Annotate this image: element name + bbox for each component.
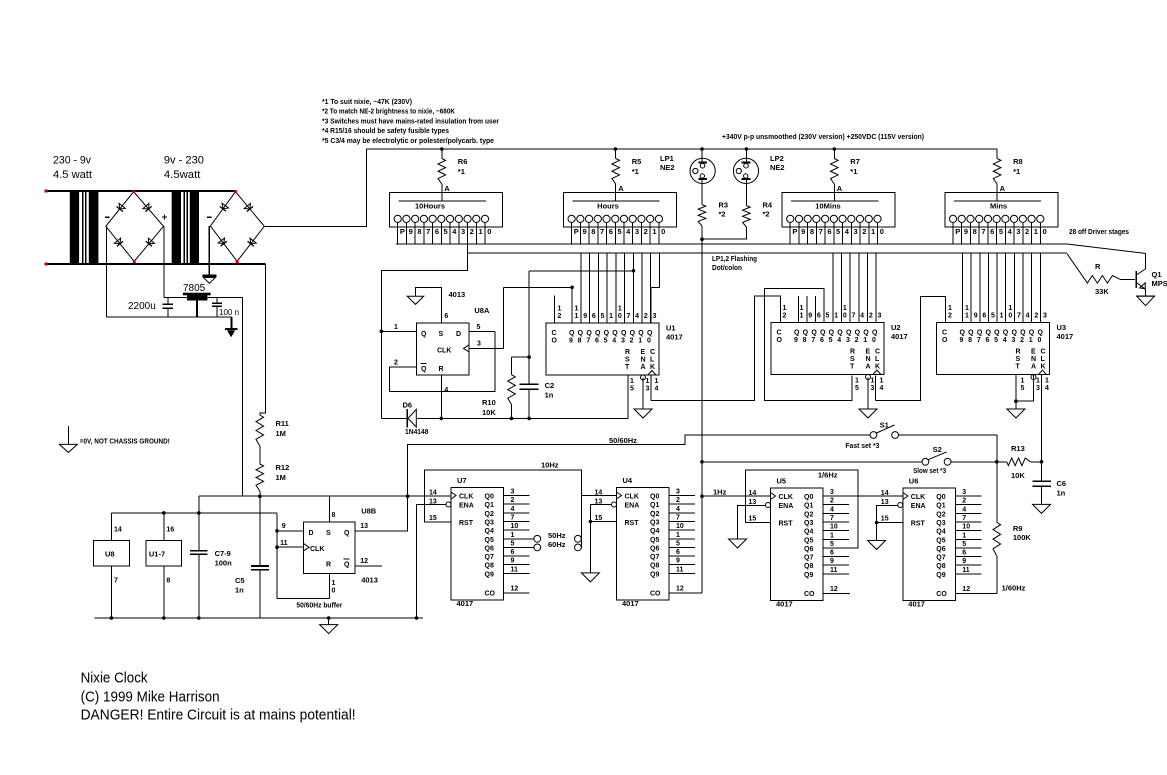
wire BR2 plus to anode bus [264,149,366,226]
svg-text:Q: Q [595,330,601,337]
svg-text:Q: Q [612,330,618,337]
svg-text:9: 9 [583,227,587,236]
resistor R5 anode [615,149,617,159]
svg-text:CLK: CLK [911,494,925,501]
junction U3 RST ENA [1014,399,1018,403]
svg-text:1n: 1n [545,391,554,400]
wire U2 unused pin stubs [798,296,800,322]
svg-text:4: 4 [845,227,850,236]
svg-text:9: 9 [808,313,812,320]
nixie Mins cathode pin wires [952,223,954,245]
wire U8A pin1 Q [381,330,416,332]
wire U7 RST loop 10Hz [425,470,582,548]
svg-text:8: 8 [968,337,972,344]
svg-text:2: 2 [511,497,515,504]
svg-text:12: 12 [830,586,838,593]
svg-text:8: 8 [810,227,814,236]
svg-text:Q8: Q8 [804,563,813,570]
wire U1-7 pin16 [163,513,165,541]
svg-text:N: N [1031,356,1036,363]
svg-text:28 off Driver stages: 28 off Driver stages [1069,229,1129,236]
wire S1 to R13 node [899,435,997,462]
svg-text:Q4: Q4 [804,529,813,536]
svg-text:1/6Hz: 1/6Hz [818,471,838,480]
svg-text:7: 7 [811,337,815,344]
svg-text:4017: 4017 [457,599,474,608]
svg-text:U4: U4 [623,476,633,485]
jumper 60Hz circles [534,544,541,551]
svg-text:9: 9 [960,337,964,344]
svg-text:MPSA4: MPSA4 [1152,279,1167,288]
IC U5 CLK wedge [771,493,776,500]
IC U7 output stubs [504,495,530,497]
svg-text:1: 1 [558,306,562,313]
svg-text:1M: 1M [276,473,286,482]
wire 10Hours anode entry [441,192,443,201]
wire U6 CO to R9 [955,592,997,594]
resistor R13 [1007,458,1031,466]
svg-text:L: L [1041,356,1046,363]
transformer T1 core [82,191,84,264]
svg-text:R7: R7 [850,157,860,166]
svg-text:1: 1 [1034,227,1038,236]
svg-text:1: 1 [863,337,867,344]
svg-text:Q: Q [846,330,852,337]
wire U8B pin11 CLK [277,546,304,548]
junction anode bus LP2 [745,147,749,151]
svg-text:Q: Q [621,330,627,337]
svg-text:*2: *2 [763,210,770,219]
svg-text:A: A [1000,184,1006,193]
svg-text:ENA: ENA [459,503,474,510]
ground U6 [868,541,886,550]
svg-text:50/60Hz: 50/60Hz [609,436,637,445]
svg-text:3: 3 [511,489,515,496]
svg-text:2: 2 [1020,337,1024,344]
svg-text:1: 1 [783,305,787,312]
wire mains top rail [46,190,236,192]
ground U1 ENA [634,409,652,418]
svg-text:RST: RST [779,521,794,528]
wire U8A pin5 D [469,331,495,333]
IC U6 4017 box [903,488,956,601]
svg-text:CLK: CLK [310,546,324,553]
junction U8B CLK [275,545,279,549]
junction gnd U1-7 [162,616,166,620]
svg-text:Q0: Q0 [936,494,945,501]
svg-text:12: 12 [676,586,684,593]
wire Hours cathode drops to U1 [580,253,582,323]
wire U5 RST loop [746,470,859,548]
svg-text:6: 6 [435,227,439,236]
svg-text:1: 1 [394,324,398,331]
wire U4 ENA RST gnd [590,505,612,573]
svg-text:2: 2 [948,313,952,320]
svg-text:3: 3 [846,337,850,344]
bridge BR2 red dots [234,190,237,193]
svg-text:3: 3 [962,489,966,496]
svg-text:(C) 1999 Mike Harrison: (C) 1999 Mike Harrison [81,690,220,706]
svg-text:Q9: Q9 [804,572,813,579]
svg-text:1: 1 [1021,378,1025,385]
svg-text:15: 15 [429,515,437,522]
capacitor C7-9 [198,513,200,551]
svg-text:S: S [326,530,331,537]
svg-text:Q9: Q9 [485,571,494,578]
wire 10Mins cathode drops to U2 [832,253,834,323]
svg-text:5: 5 [994,337,998,344]
svg-text:7: 7 [676,514,680,521]
svg-text:11: 11 [830,567,838,574]
junction R10 C2 [527,355,531,359]
wire hours reset rail [381,417,407,419]
svg-text:9: 9 [583,313,587,320]
wire LP1 to R3 [701,179,703,205]
svg-text:Q6: Q6 [485,545,494,552]
junction 1Hz S2 branch [700,460,704,464]
svg-text:9: 9 [964,227,968,236]
svg-text:1: 1 [652,227,656,236]
svg-text:1: 1 [609,313,613,320]
svg-text:=0V, NOT CHASSIS GROUND!: =0V, NOT CHASSIS GROUND! [80,439,170,446]
svg-text:Q: Q [985,330,991,337]
svg-text:*5 C3/4 may be electrolytic or: *5 C3/4 may be electrolytic or polester/… [322,138,494,145]
wire cathode bus upper [396,243,1067,245]
wire U8B pin10 R [328,574,330,599]
svg-text:U8A: U8A [474,306,490,315]
svg-text:CO: CO [485,591,496,598]
ground Q1 emitter [1136,295,1155,297]
svg-text:1N4148: 1N4148 [405,429,429,436]
wire U8B pin8 S [328,496,330,522]
IC U4 ENA bubble [612,502,617,507]
diode D6 1N4148 [406,409,408,428]
svg-text:0: 0 [332,588,336,595]
svg-text:7: 7 [511,514,515,521]
svg-text:N: N [866,356,871,363]
wire U1 RST drop [627,375,629,418]
nixie tube 10Hours box [390,192,503,227]
svg-text:8: 8 [803,337,807,344]
junction reset rail pin4 [440,417,444,421]
svg-text:Q0: Q0 [485,494,494,501]
svg-text:Q7: Q7 [804,555,813,562]
svg-text:5: 5 [630,386,634,393]
wire U5 CO stub [825,592,851,594]
transformer T2 secondary winding bar [190,191,199,264]
svg-text:9: 9 [830,558,834,565]
svg-text:C: C [650,349,655,356]
switch S1 [870,432,877,439]
regulator 7805 body [183,293,211,296]
junction R13 left [995,460,999,464]
svg-text:S: S [850,356,855,363]
svg-text:5: 5 [826,313,830,320]
svg-text:R: R [850,349,855,356]
resistor R7 anode [833,149,835,159]
svg-text:10Hours: 10Hours [415,202,445,211]
IC U1 4017 box [546,323,659,375]
svg-text:RST: RST [911,521,926,528]
wire U3 CLK drop to R13 [1041,375,1043,462]
wire BR2 minus down [208,226,210,276]
svg-text:100K: 100K [1013,533,1032,542]
svg-text:Q: Q [803,330,809,337]
svg-text:7: 7 [962,515,966,522]
svg-text:10Mins: 10Mins [815,202,840,211]
wire U2 reset loop to Q6 [764,288,852,400]
svg-text:5: 5 [477,324,481,331]
svg-text:1: 1 [1008,305,1012,312]
svg-text:2: 2 [644,313,648,320]
svg-text:4: 4 [635,313,639,320]
svg-text:5: 5 [836,227,840,236]
svg-text:6: 6 [830,550,834,557]
svg-text:C7-9: C7-9 [215,549,231,558]
wire Hours drop 0 jog [651,253,660,323]
svg-text:6: 6 [817,313,821,320]
svg-text:2: 2 [862,227,866,236]
svg-text:L: L [650,357,655,364]
IC U8B CLK wedge [304,544,310,551]
wire Q1 emitter to ground [1145,289,1147,296]
svg-text:D: D [309,530,314,537]
svg-text:0: 0 [1043,227,1047,236]
bridge rectifier BR1 [106,192,164,262]
wire LP2 to R4 [745,179,747,206]
svg-text:9: 9 [569,338,573,345]
svg-text:Q1: Q1 [1152,270,1162,279]
junction rail C7-9 [197,511,201,515]
nixie 10Hours cathode pin wires [397,223,399,245]
wire U8B pin9 D [277,530,304,532]
svg-text:Q: Q [820,330,826,337]
wire +340V anode bus [367,148,997,150]
wire R to Q1 base [1120,278,1135,280]
svg-text:Q4: Q4 [485,528,494,535]
svg-text:Q5: Q5 [936,537,945,544]
svg-text:Q: Q [421,331,427,338]
svg-text:7: 7 [600,227,604,236]
svg-text:Q: Q [994,330,1000,337]
svg-text:R: R [625,349,630,356]
svg-text:CLK: CLK [779,494,793,501]
svg-text:Nixie Clock: Nixie Clock [81,671,149,687]
wire LP1 top [701,149,703,163]
IC U6 ENA bubble [898,503,903,508]
IC U3 ENA bubble [1031,375,1036,380]
svg-text:1: 1 [646,378,650,385]
IC U2 ENA bubble [866,375,871,380]
wire R12 bottom [259,491,261,496]
svg-text:0: 0 [487,227,491,236]
svg-text:3: 3 [1016,227,1020,236]
wire U1 CO stub [554,296,556,323]
svg-text:1: 1 [655,378,659,385]
svg-text:A: A [1031,364,1036,371]
wire LP2 top [745,149,747,163]
svg-text:T: T [625,364,630,371]
svg-text:S: S [439,331,444,338]
svg-text:1: 1 [948,305,952,312]
svg-text:Q: Q [1037,330,1043,337]
svg-text:A: A [444,184,450,193]
svg-text:4: 4 [626,227,631,236]
IC U1-7 supply box [146,541,181,566]
ground 0V rail [231,317,233,328]
wire U2 ENA to ground [867,378,869,410]
resistor R9 [996,462,998,523]
svg-text:1: 1 [478,227,482,236]
wire U8 pin14 [110,513,112,541]
svg-text:Q4: Q4 [650,528,659,535]
svg-text:1: 1 [1036,378,1040,385]
wire +5V horizontal link [199,495,451,497]
wire R10 top link [512,356,530,358]
svg-text:U8B: U8B [361,507,377,516]
svg-text:1: 1 [511,532,515,539]
svg-text:0: 0 [880,227,884,236]
resistor R4 [743,206,751,227]
svg-text:12: 12 [962,586,970,593]
svg-text:1Hz: 1Hz [713,488,727,497]
svg-text:3: 3 [477,341,481,348]
svg-text:1: 1 [962,532,966,539]
wire U8A pin4 R drop [440,375,442,418]
svg-text:Q0: Q0 [650,494,659,501]
IC U6 CLK wedge [903,493,908,500]
IC U2 4017 box [771,323,884,375]
nixie tube 10Mins box [782,192,895,227]
svg-text:12: 12 [360,558,368,565]
svg-text:CLK: CLK [437,348,451,355]
svg-text:1n: 1n [1057,489,1066,498]
svg-text:R10: R10 [482,398,496,407]
svg-text:LP2: LP2 [770,154,784,163]
svg-text:*1: *1 [458,167,465,176]
svg-text:2: 2 [855,337,859,344]
wire U1-7 pin8 [163,566,165,618]
junction U8B D [275,529,279,533]
ground U3 RST [1007,409,1025,418]
svg-text:C5: C5 [235,576,245,585]
svg-text:8: 8 [591,227,595,236]
svg-text:DANGER! Entire Circuit is at m: DANGER! Entire Circuit is at mains poten… [81,708,356,724]
svg-text:Q: Q [647,330,653,337]
svg-text:7: 7 [1017,313,1021,320]
svg-text:2: 2 [869,313,873,320]
wire U1 CLK pin drop [650,375,652,401]
svg-text:Mins: Mins [990,202,1007,211]
svg-text:5: 5 [991,313,995,320]
bridge BR2 polarity mark [207,216,212,218]
IC U5 4017 box [771,488,824,601]
svg-text:A: A [866,364,871,371]
svg-text:2: 2 [830,498,834,505]
resistor R11 [256,415,264,446]
wire U4 CLK from 10Hz [581,495,616,497]
svg-text:11: 11 [962,567,970,574]
svg-text:4: 4 [1008,227,1013,236]
svg-text:2: 2 [1025,227,1029,236]
svg-text:0: 0 [618,313,622,320]
svg-text:ENA: ENA [625,503,640,510]
wire U8A S pin6 [416,288,442,324]
IC U8B 4013 box [304,522,356,573]
capacitor 2200u [167,298,169,305]
wire U3 RST ENA tie [1015,375,1017,409]
ground 0V annotation symbol [67,426,69,444]
svg-text:R: R [326,562,331,569]
svg-text:8: 8 [166,578,170,585]
svg-text:CO: CO [936,591,947,598]
svg-text:Hours: Hours [597,202,619,211]
wire BR1 minus to 0V rail [106,226,108,317]
resistor R10 [511,357,513,375]
svg-text:3: 3 [646,386,650,393]
svg-text:11: 11 [280,540,288,547]
svg-text:Q6: Q6 [804,546,813,553]
svg-text:9: 9 [409,227,413,236]
wire U5 Q0 to U6 CLK [825,495,903,497]
svg-text:15: 15 [881,516,889,523]
svg-text:4: 4 [612,338,616,345]
svg-text:A: A [641,364,646,371]
junction gnd center [327,616,331,620]
svg-text:T: T [850,364,855,371]
svg-text:4: 4 [452,227,457,236]
wire U1 ENA to ground [642,378,644,410]
svg-text:0: 0 [1008,313,1012,320]
svg-text:ENA: ENA [911,503,926,510]
svg-text:4: 4 [655,386,659,393]
svg-text:S1: S1 [880,421,889,430]
svg-text:1: 1 [332,580,336,587]
svg-text:6: 6 [820,337,824,344]
svg-text:4: 4 [1003,337,1007,344]
ground U5 ENA [729,539,747,548]
svg-text:230 - 9v: 230 - 9v [53,155,91,167]
svg-text:1: 1 [618,306,622,313]
svg-text:D6: D6 [403,401,413,410]
svg-text:U1-7: U1-7 [149,550,165,559]
svg-text:7: 7 [830,515,834,522]
wire Mins cathode drops to U3 [962,253,964,323]
svg-text:C: C [875,349,880,356]
svg-text:9: 9 [974,313,978,320]
ground U2 ENA [859,409,877,418]
IC U5 output stubs [823,495,849,497]
IC U4 CLK wedge [617,492,622,499]
nixie tube Hours box [563,192,676,227]
svg-text:R11: R11 [276,419,289,428]
svg-text:4.5 watt: 4.5 watt [53,169,92,181]
svg-text:7: 7 [586,338,590,345]
svg-text:13: 13 [360,523,368,530]
wire 0V ground rail [107,316,232,318]
svg-text:R9: R9 [1013,524,1023,533]
svg-text:Q1: Q1 [650,502,659,509]
ground U4 [581,573,599,582]
junction reset rail R10 [510,417,514,421]
wire mains bottom rail [46,263,266,265]
svg-text:A: A [618,184,624,193]
svg-text:Q6: Q6 [936,546,945,553]
wire Hours anode entry [615,192,617,201]
svg-text:4: 4 [837,337,841,344]
junction gnd U8 [110,616,114,620]
svg-text:4: 4 [1026,313,1030,320]
